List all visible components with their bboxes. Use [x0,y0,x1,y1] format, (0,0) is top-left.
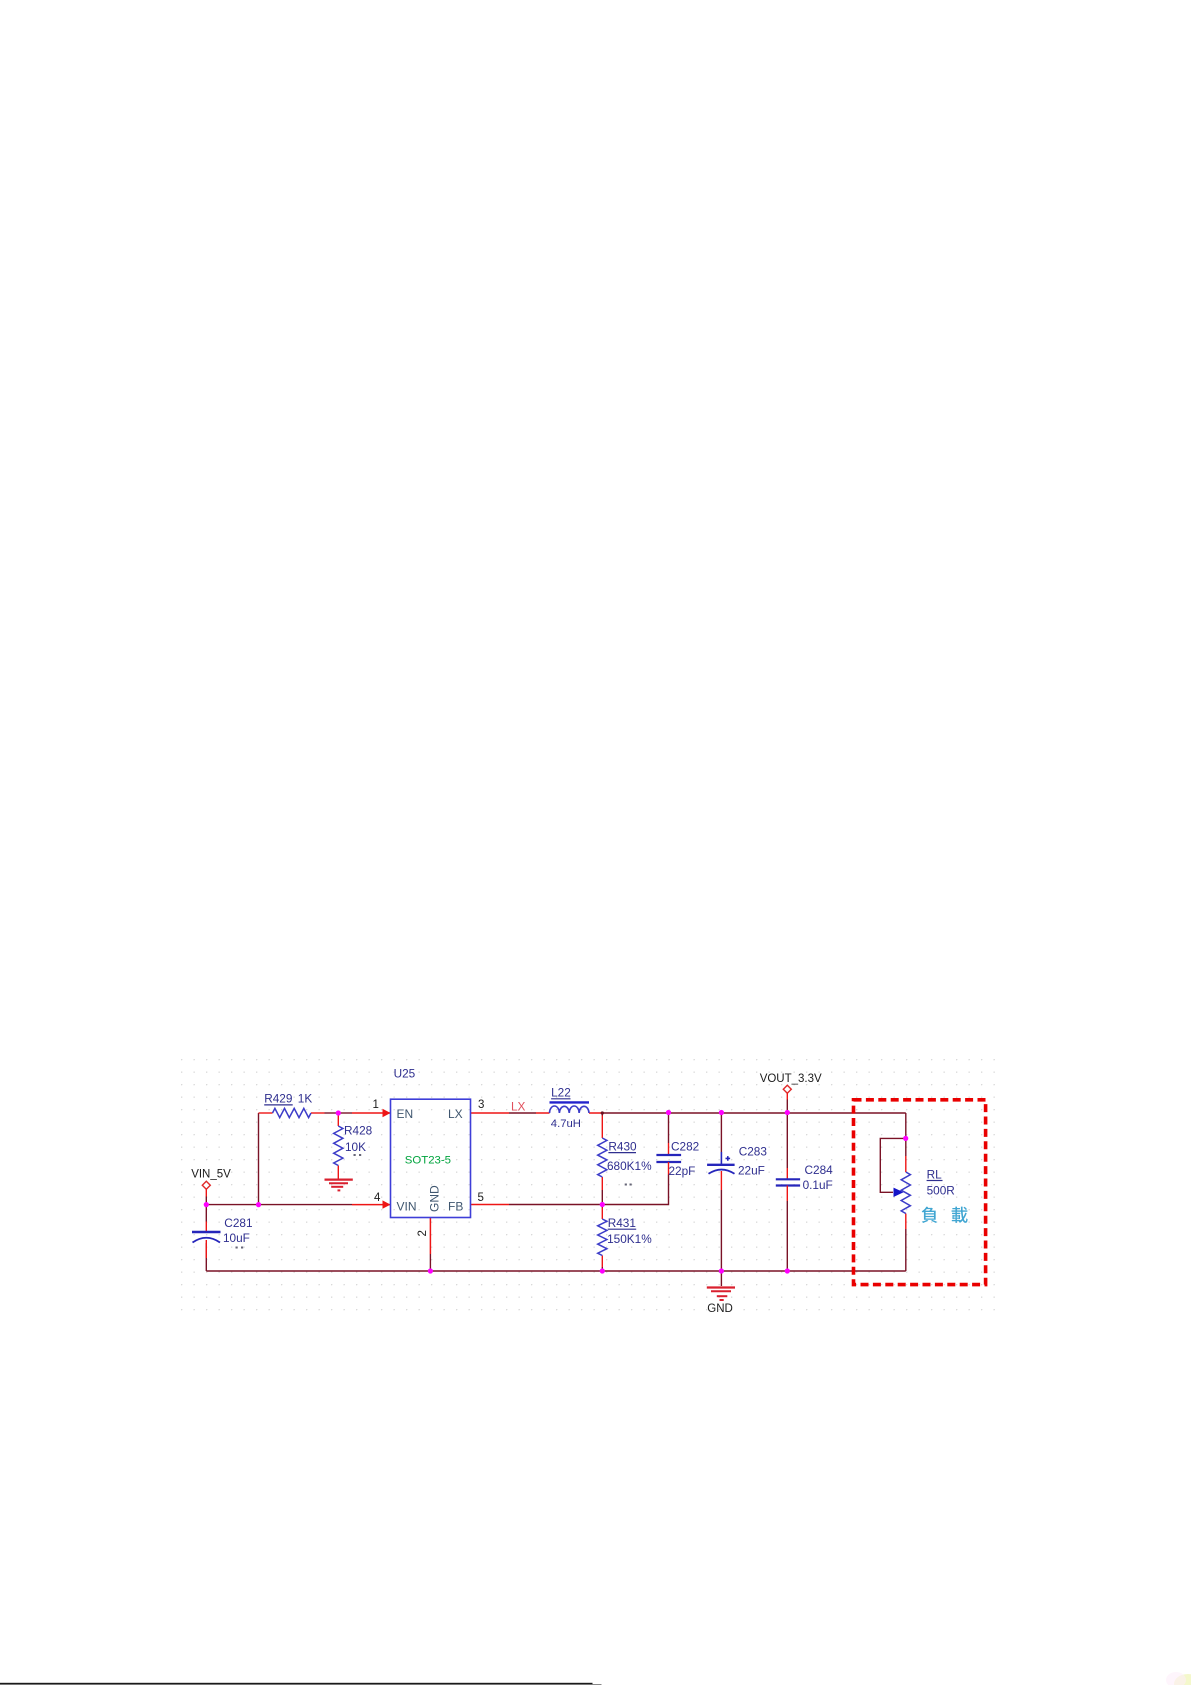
wire R429 left corner [259,1112,261,1114]
junction dot C284 bottom [785,1268,790,1273]
junction dot RL wiper loop top [903,1136,908,1141]
resistor R429 [261,1092,339,1118]
svg-text:4: 4 [374,1192,381,1204]
svg-text:5: 5 [478,1192,484,1204]
bottom page border line [0,1683,593,1685]
junction dot VOUT [785,1110,790,1115]
svg-text:1: 1 [373,1099,379,1111]
junction dot VIN port rail [204,1202,209,1207]
load text 負 載 [922,1207,968,1223]
svg-text:R430: R430 [608,1139,637,1153]
svg-text:FB: FB [448,1200,463,1214]
wire R428 top [337,1113,339,1115]
svg-text:10K: 10K [345,1140,366,1154]
wire R430 bottom to FB rail [601,1190,603,1205]
svg-text:R429: R429 [264,1092,292,1106]
svg-text:0.1uF: 0.1uF [803,1178,833,1192]
svg-text:R428: R428 [344,1124,373,1138]
wire VOUT port to rail and C284 branch [786,1100,788,1272]
svg-text:RL: RL [927,1167,943,1181]
svg-text:10uF: 10uF [223,1231,250,1245]
power port VOUT_3.3V [760,1073,822,1100]
wire C282 top lead [668,1113,670,1144]
capacitor C284 [776,1163,833,1201]
junction dot C282 top [666,1110,671,1115]
wire load branch down from top rail [905,1113,907,1156]
svg-text:GND: GND [428,1185,442,1212]
svg-text:C283: C283 [739,1145,768,1159]
svg-text:4.7uH: 4.7uH [551,1118,581,1130]
junction dot pin2 ground [428,1268,433,1273]
junction dot R430 top tap [601,1111,604,1114]
svg-text:680K1%: 680K1% [607,1159,652,1173]
wire GND symbol stub below rail [720,1271,722,1286]
red pin stub LX pin3 [471,1112,510,1114]
svg-text:150K1%: 150K1% [607,1232,652,1246]
wire RL wiper loop [880,1138,905,1192]
wire R431 branch [601,1205,603,1272]
svg-text:C284: C284 [805,1163,834,1177]
inductor L22 [550,1086,590,1130]
svg-text:GND: GND [707,1303,733,1315]
power port VIN_5V [191,1169,231,1197]
wire C283 branch [720,1113,722,1272]
load outline red dashed box [854,1100,986,1285]
resistor R431 [598,1208,653,1268]
svg-text:2: 2 [417,1230,429,1236]
wire bottom ground rail [206,1270,906,1272]
svg-text:VOUT_3.3V: VOUT_3.3V [760,1073,822,1085]
resistor R430 [598,1116,652,1191]
op-amp U25 IC body SOT23-5 [391,1099,471,1217]
svg-text:1K: 1K [298,1092,313,1106]
red pin stub GND pin2 [429,1218,431,1255]
svg-text:C282: C282 [671,1139,699,1153]
ground symbol GND below rail [707,1288,735,1316]
grid background of schematic capture area [176,1053,1003,1312]
wire vertical from R429 corner down to VIN rail [258,1113,260,1205]
svg-text:22pF: 22pF [669,1164,696,1178]
junction dot R429 corner rail [256,1202,261,1207]
wire C281 branch [205,1197,207,1272]
capacitor C281 [192,1216,253,1258]
svg-text:500R: 500R [927,1183,955,1197]
capacitor C282 [656,1139,699,1178]
resistor R428 [334,1115,373,1180]
junction dot C283 top [719,1110,724,1115]
faint corner artifact bottom-right [1174,1674,1191,1685]
svg-text:22uF: 22uF [738,1163,765,1177]
capacitor C283 polarized [707,1145,767,1190]
svg-text:LX: LX [448,1107,463,1121]
junction dot C283 bottom / GND [719,1268,724,1273]
svg-text:VIN_5V: VIN_5V [191,1169,231,1181]
svg-text:3: 3 [478,1099,484,1111]
red pin stub VIN pin4 with arrow [352,1200,391,1208]
junction dot EN/R428 [336,1110,341,1115]
svg-text:U25: U25 [394,1067,416,1081]
svg-text:L22: L22 [551,1086,571,1100]
wire VIN rail from port to VIN pin [206,1204,352,1206]
svg-text:SOT23-5: SOT23-5 [405,1154,451,1166]
red pin stub FB pin5 [471,1204,510,1206]
rheostat RL 500R [894,1156,955,1229]
wire top rail LX/VOUT net [509,1112,906,1114]
wire RL bottom to ground rail [905,1229,907,1271]
wire R430 branch top [601,1113,603,1116]
junction dot FB tap R430/R431 [600,1202,605,1207]
wire EN net from junction to pin stub [338,1112,352,1114]
svg-text:LX: LX [511,1100,526,1114]
ground symbol under R428 [325,1180,353,1191]
svg-text:C281: C281 [224,1216,252,1230]
svg-text:VIN: VIN [397,1200,417,1214]
wire IC pin2 to ground rail [429,1254,431,1271]
wire FB mid rail [509,1175,669,1205]
svg-text:EN: EN [397,1107,414,1121]
junction dot R431 bottom [600,1268,605,1273]
red pin stub EN pin1 with arrow [352,1109,391,1117]
svg-text:R431: R431 [608,1216,636,1230]
